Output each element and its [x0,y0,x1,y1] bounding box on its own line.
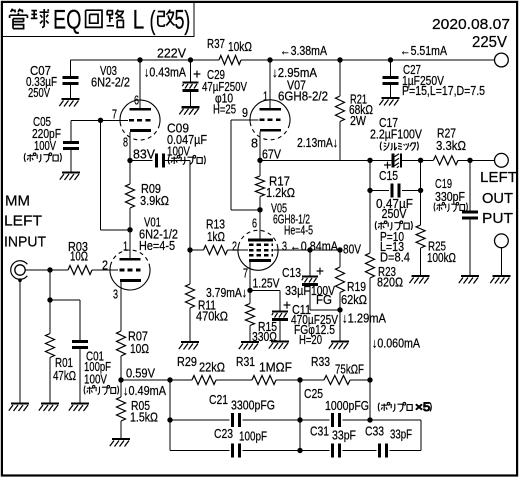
svg-text:1kΩ: 1kΩ [207,229,225,244]
svg-text:L: L [133,5,145,35]
svg-text:He=4-5: He=4-5 [284,223,313,238]
svg-text:7: 7 [243,266,248,281]
svg-text:2: 2 [232,239,237,254]
svg-text:100V: 100V [34,138,56,153]
svg-text:←5.51mA: ←5.51mA [400,43,447,58]
svg-text:820Ω: 820Ω [377,275,403,290]
svg-text:C13: C13 [282,265,301,280]
svg-text:(: ( [150,6,156,36]
svg-text:2W: 2W [350,113,367,128]
svg-text:3: 3 [282,239,287,254]
svg-text:100V: 100V [167,144,190,159]
svg-text:EQ: EQ [53,5,82,35]
svg-text:1000pFG: 1000pFG [325,398,369,413]
svg-text:C25: C25 [304,386,323,401]
svg-text:7: 7 [112,107,117,122]
svg-text:222V: 222V [157,46,186,61]
svg-text:3.79mA↓: 3.79mA↓ [206,285,247,300]
svg-text:225V: 225V [472,34,508,51]
svg-text:250V: 250V [28,85,50,100]
svg-text:22kΩ: 22kΩ [199,360,225,375]
svg-text:1.5kΩ: 1.5kΩ [130,410,158,425]
svg-text:+: + [316,263,324,279]
svg-text:2020.08.07: 2020.08.07 [432,16,510,33]
svg-text:←0.84mA: ←0.84mA [290,239,338,254]
svg-text:+: + [283,297,291,313]
svg-text:←3.38mA: ←3.38mA [280,43,327,58]
svg-text:↓0.49mA: ↓0.49mA [123,383,166,398]
svg-text:↓2.95mA: ↓2.95mA [272,65,317,80]
svg-text:1: 1 [263,89,268,104]
svg-text:33pF: 33pF [332,428,356,443]
svg-text:+: + [193,66,201,82]
svg-text:H=20: H=20 [299,332,322,347]
svg-text:2.13mA↓: 2.13mA↓ [297,135,338,150]
svg-text:83V: 83V [133,147,155,162]
svg-text:C15: C15 [379,168,398,183]
svg-text:2.2µF100V: 2.2µF100V [370,127,422,142]
svg-text:): ) [184,6,190,36]
svg-text:3: 3 [113,287,118,302]
svg-text:LEFT: LEFT [480,169,517,186]
svg-text:47kΩ: 47kΩ [53,368,76,383]
svg-text:62kΩ: 62kΩ [341,292,367,307]
svg-text:R31: R31 [236,354,255,369]
svg-text:C31: C31 [310,424,329,439]
svg-text:3.9kΩ: 3.9kΩ [140,193,169,208]
svg-text:D=8.4: D=8.4 [380,250,410,265]
svg-text:1MΩF: 1MΩF [259,360,292,375]
svg-text:6N2-2/2: 6N2-2/2 [91,75,130,90]
svg-text:1: 1 [123,239,128,254]
svg-text:0.59V: 0.59V [126,366,155,381]
svg-text:PUT: PUT [482,210,513,227]
svg-text:9: 9 [242,105,248,120]
svg-text:P=15,L=17,D=7.5: P=15,L=17,D=7.5 [402,83,485,98]
svg-text:100kΩ: 100kΩ [427,250,456,265]
svg-text:↓0.43mA: ↓0.43mA [144,65,186,80]
svg-text:C33: C33 [365,424,384,439]
svg-text:5: 5 [175,5,185,35]
svg-text:75kΩF: 75kΩF [335,362,364,377]
svg-text:H=25: H=25 [213,102,236,117]
svg-text:100pF: 100pF [239,429,267,444]
svg-text:He=4-5: He=4-5 [139,238,175,253]
svg-text:R33: R33 [311,354,330,369]
svg-text:×5: ×5 [415,400,431,414]
svg-text:67V: 67V [262,147,281,162]
svg-text:250V: 250V [382,206,407,221]
svg-text:OUT: OUT [482,190,513,207]
svg-text:33pF: 33pF [390,427,412,442]
svg-text:8: 8 [251,136,258,151]
svg-text:↓1.29mA: ↓1.29mA [342,311,386,326]
svg-text:330Ω: 330Ω [252,329,277,344]
svg-text:C23: C23 [214,426,233,441]
svg-text:R37: R37 [207,36,225,51]
svg-text:10Ω: 10Ω [130,341,149,356]
svg-text:1.25V: 1.25V [253,276,280,291]
svg-text:3300pFG: 3300pFG [231,398,275,413]
svg-text:↓0.060mA: ↓0.060mA [372,336,420,351]
svg-text:C21: C21 [209,392,228,407]
svg-text:330pF: 330pF [435,189,465,204]
svg-text:6GH8-2/2: 6GH8-2/2 [278,89,328,104]
svg-text:10Ω: 10Ω [70,249,88,264]
svg-text:6: 6 [252,216,257,231]
svg-text:10kΩ: 10kΩ [228,39,252,54]
svg-text:MM: MM [5,193,30,210]
svg-text:2: 2 [102,258,108,273]
svg-text:470kΩ: 470kΩ [196,309,228,324]
svg-text:6: 6 [134,93,139,108]
svg-text:3.3kΩ: 3.3kΩ [436,138,466,153]
svg-text:R29: R29 [177,354,197,369]
svg-text:8: 8 [123,135,128,150]
svg-text:80V: 80V [343,242,361,257]
svg-text:1.2kΩ: 1.2kΩ [266,185,295,200]
svg-text:FG: FG [316,292,332,307]
svg-text:LEFT: LEFT [4,213,42,230]
svg-text:100V: 100V [84,372,107,387]
svg-text:INPUT: INPUT [4,234,46,251]
